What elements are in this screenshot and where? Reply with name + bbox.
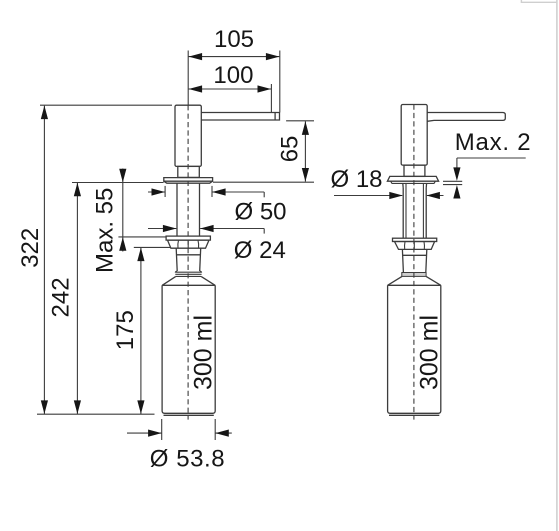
right view neck xyxy=(404,165,425,176)
left view neck collar xyxy=(175,271,201,276)
right view neck collar xyxy=(402,273,426,277)
dimension 100 xyxy=(188,62,271,112)
svg-text:300 ml: 300 ml xyxy=(189,315,217,390)
left view centerline xyxy=(187,105,189,419)
right view locknut plate xyxy=(393,238,437,241)
right view bottle shoulder xyxy=(388,276,441,285)
svg-text:Max. 55: Max. 55 xyxy=(92,188,119,273)
dimension Max. 55 xyxy=(92,169,167,274)
svg-text:100: 100 xyxy=(213,62,253,89)
right view hex nut xyxy=(395,242,435,250)
left view hex nut xyxy=(168,240,210,248)
baseline extension at bottle bottom xyxy=(37,413,155,415)
page border artifact top-right corner xyxy=(521,0,557,2)
right view shaft collar xyxy=(403,183,427,238)
page border artifact right xyxy=(556,0,558,531)
dimension 65 xyxy=(213,121,314,182)
right bottle label 300 ml xyxy=(416,315,444,390)
dimension 322 xyxy=(17,105,172,414)
right view centerline xyxy=(413,105,415,420)
dimension 175 xyxy=(112,247,170,414)
right view flange xyxy=(387,176,438,183)
left view locknut plate xyxy=(166,236,210,240)
right view pump head xyxy=(401,105,427,166)
left bottle label 300 ml xyxy=(189,315,217,390)
dimension diameter 53.8 xyxy=(127,419,232,473)
dimension 105 xyxy=(188,26,280,112)
left view pump head xyxy=(175,105,201,166)
left view spout xyxy=(201,113,279,121)
svg-text:Ø 18: Ø 18 xyxy=(331,166,383,193)
left view neck xyxy=(178,166,200,177)
left view bottle shoulder xyxy=(162,276,215,285)
dimension Max. 2 xyxy=(443,129,531,199)
left view bottle neck xyxy=(176,248,201,271)
svg-text:300 ml: 300 ml xyxy=(416,315,444,390)
dimension diameter 18 xyxy=(331,166,444,199)
left view threaded shaft xyxy=(177,183,200,236)
left view flange xyxy=(164,178,213,184)
right view bottle body xyxy=(388,285,441,415)
svg-text:322: 322 xyxy=(17,228,44,268)
svg-text:175: 175 xyxy=(112,310,139,350)
dimension 242 xyxy=(48,183,164,415)
svg-text:Ø 53.8: Ø 53.8 xyxy=(150,446,225,473)
svg-text:Ø 50: Ø 50 xyxy=(235,199,287,226)
left view bottle body xyxy=(162,285,215,415)
svg-text:Ø 24: Ø 24 xyxy=(234,237,286,264)
right view spout xyxy=(427,113,505,122)
svg-text:242: 242 xyxy=(48,277,75,317)
svg-text:105: 105 xyxy=(214,26,254,53)
svg-text:65: 65 xyxy=(276,136,303,163)
svg-text:Max. 2: Max. 2 xyxy=(455,129,532,156)
right view bottle neck xyxy=(402,249,426,272)
dimension diameter 24 xyxy=(148,225,286,264)
dimension diameter 50 xyxy=(148,186,287,226)
